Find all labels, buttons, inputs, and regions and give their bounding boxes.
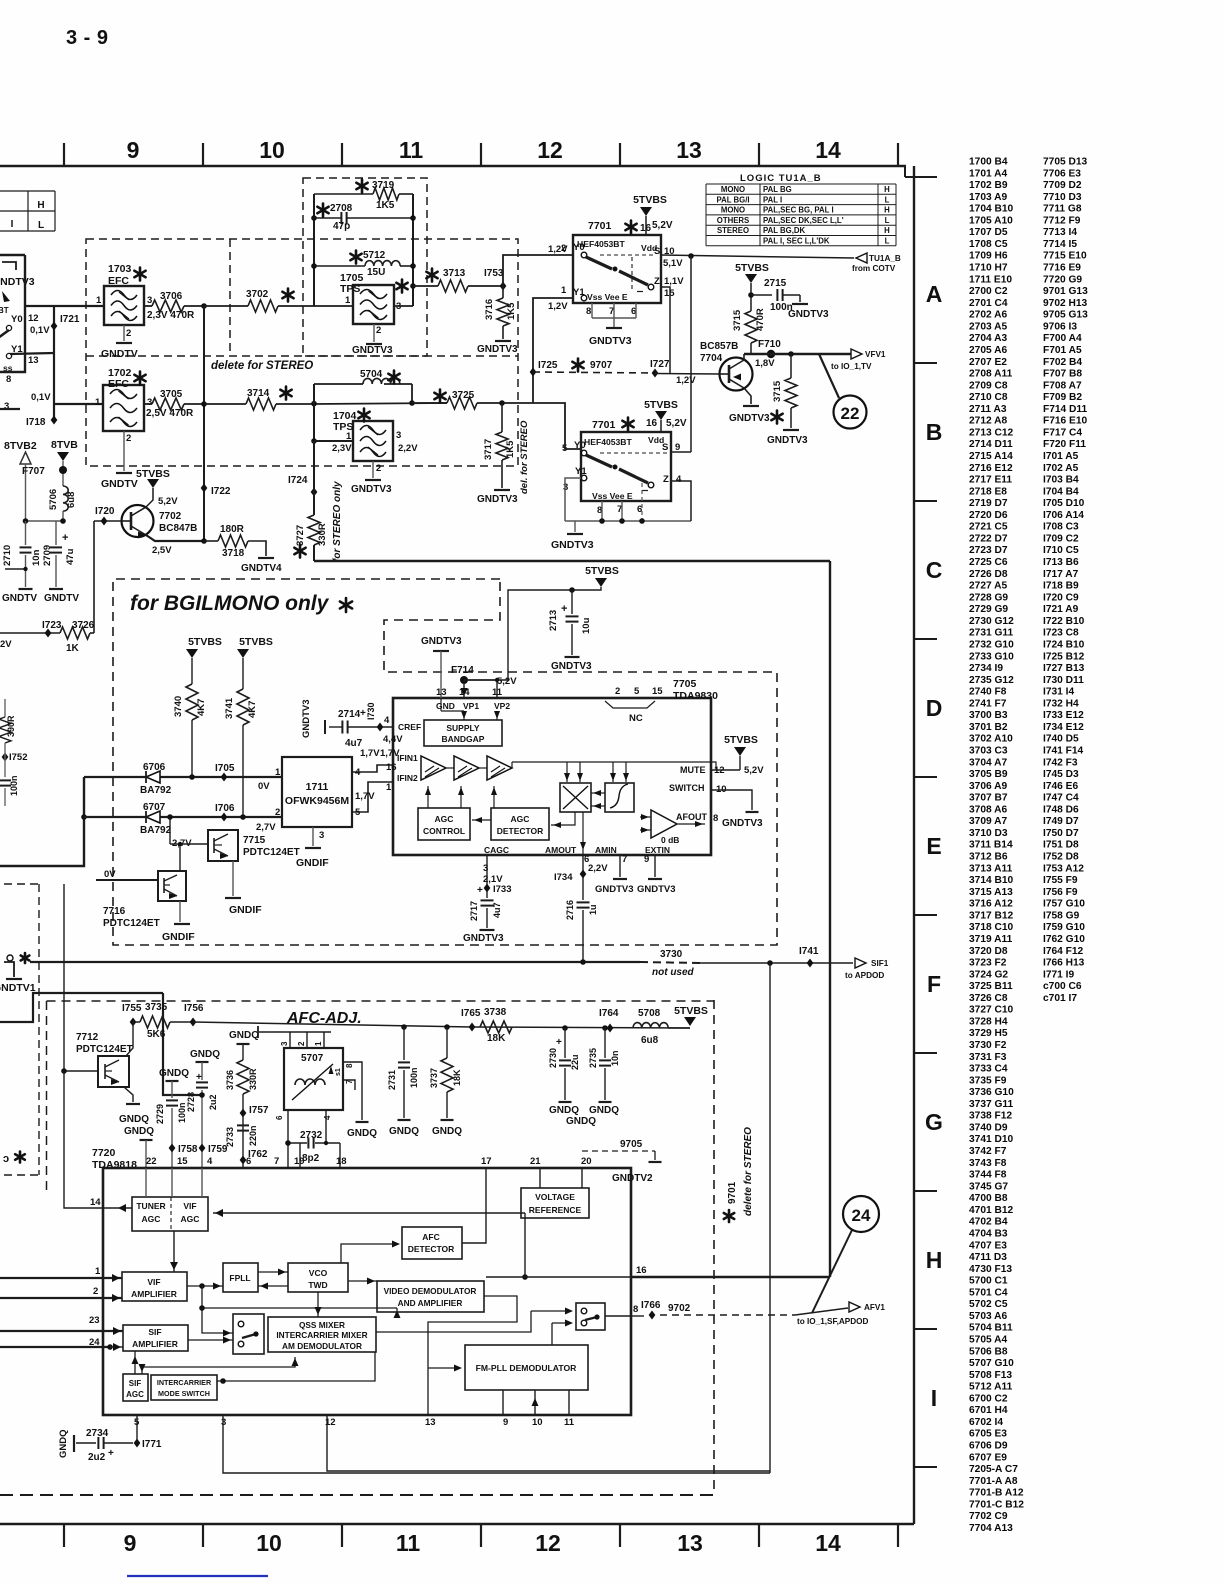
corner mark	[2, 262, 16, 270]
left rail of 1705 network	[313, 194, 315, 306]
svg-text:1K5: 1K5	[506, 302, 517, 320]
svg-text:I752: I752	[9, 752, 28, 763]
svg-text:MONO: MONO	[721, 185, 745, 194]
svg-text:5,2V: 5,2V	[158, 496, 178, 507]
svg-text:7701: 7701	[592, 419, 616, 431]
svg-text:100n: 100n	[9, 775, 19, 796]
svg-text:PAL,SEC DK,SEC L,L': PAL,SEC DK,SEC L,L'	[763, 216, 844, 225]
wire left feed to IFIN lines	[0, 777, 84, 866]
svg-text:3745 G7: 3745 G7	[969, 1181, 1008, 1192]
wire AMOUT	[582, 812, 584, 855]
asterisk for 3719	[356, 180, 367, 193]
wire switch pin to ground	[711, 790, 752, 810]
svg-text:GNDIF: GNDIF	[296, 857, 329, 869]
svg-text:2u2: 2u2	[208, 1094, 218, 1110]
svg-text:5706: 5706	[48, 489, 59, 510]
svg-text:1700 B4: 1700 B4	[969, 157, 1008, 168]
svg-text:I706: I706	[215, 803, 235, 814]
svg-text:470R: 470R	[755, 308, 766, 331]
svg-text:7715 E10: 7715 E10	[1043, 251, 1087, 262]
svg-text:2u2: 2u2	[88, 1452, 106, 1463]
block AGC CONTROL	[418, 808, 470, 840]
svg-text:2731 G11: 2731 G11	[969, 628, 1014, 639]
svg-text:I734: I734	[554, 872, 573, 883]
svg-text:2,2V: 2,2V	[588, 863, 608, 874]
svg-text:12: 12	[537, 137, 563, 163]
wire 7712 base	[64, 1070, 98, 1072]
svg-text:3 - 9: 3 - 9	[66, 27, 109, 49]
svg-text:AMIN: AMIN	[595, 845, 617, 855]
svg-text:11: 11	[399, 137, 424, 163]
wire IFIN1 line	[84, 776, 282, 778]
svg-text:2735: 2735	[588, 1048, 598, 1068]
svg-text:3726 C8: 3726 C8	[969, 993, 1008, 1004]
svg-text:I718 B9: I718 B9	[1043, 581, 1079, 592]
emitter of 7702 to 180R	[146, 535, 204, 541]
svg-text:3735 F9: 3735 F9	[969, 1075, 1007, 1086]
svg-text:6705 E3: 6705 E3	[969, 1429, 1007, 1440]
svg-text:5,2V: 5,2V	[744, 765, 764, 776]
svg-text:3708 A6: 3708 A6	[969, 804, 1007, 815]
ground GNDTV3 of 2717	[480, 929, 495, 931]
capacitor 2716 1u	[577, 901, 590, 903]
svg-text:Z: Z	[654, 276, 660, 287]
svg-text:22u: 22u	[570, 1054, 580, 1070]
svg-text:GNDTV3: GNDTV3	[0, 276, 35, 288]
ground GNDTV4	[258, 557, 274, 559]
svg-text:8: 8	[6, 374, 11, 385]
svg-text:GNDTV: GNDTV	[2, 593, 37, 604]
svg-text:4K7: 4K7	[196, 699, 207, 716]
svg-text:GNDQ: GNDQ	[566, 1116, 596, 1127]
resistor 3706	[144, 305, 152, 307]
asterisk for 3702	[282, 289, 293, 302]
svg-text:3714 B10: 3714 B10	[969, 875, 1014, 886]
svg-text:GNDQ: GNDQ	[389, 1126, 419, 1137]
block VIF AMPLIFIER	[122, 1272, 187, 1301]
coil 5708 6u8	[633, 1023, 668, 1028]
dashed AFC-ADJ box	[47, 1000, 715, 1002]
wire 7712 collector to I755	[126, 1022, 133, 1056]
svg-text:9: 9	[127, 137, 140, 163]
svg-text:10: 10	[259, 137, 285, 163]
svg-text:I766: I766	[641, 1300, 661, 1311]
svg-text:I: I	[11, 219, 14, 230]
svg-text:11: 11	[564, 1417, 575, 1428]
svg-text:7720 G9: 7720 G9	[1043, 274, 1082, 285]
wire Y0 input of 7701-C	[533, 403, 581, 449]
svg-text:I766 H13: I766 H13	[1043, 958, 1085, 969]
svg-text:47p: 47p	[333, 221, 350, 232]
svg-text:15: 15	[652, 686, 663, 697]
svg-text:I730 D11: I730 D11	[1043, 675, 1084, 686]
svg-text:7702: 7702	[159, 511, 182, 522]
svg-text:1: 1	[345, 295, 351, 306]
svg-text:1707 D5: 1707 D5	[969, 227, 1008, 238]
svg-text:FM-PLL DEMODULATOR: FM-PLL DEMODULATOR	[476, 1363, 578, 1373]
svg-text:2700 C2: 2700 C2	[969, 286, 1008, 297]
top ruler ticks	[63, 143, 65, 166]
svg-text:6707: 6707	[143, 802, 166, 813]
svg-text:3737: 3737	[429, 1068, 439, 1088]
wire stub with test point I721	[53, 306, 55, 353]
svg-text:5TVBS: 5TVBS	[735, 262, 769, 274]
svg-text:3717 B12: 3717 B12	[969, 910, 1014, 921]
block VCO TWD	[288, 1263, 348, 1292]
svg-text:2709: 2709	[42, 545, 53, 566]
svg-text:EFC: EFC	[108, 378, 129, 390]
mixer block	[560, 783, 591, 812]
svg-text:2728: 2728	[186, 1092, 196, 1112]
resistor 3735 5K6	[133, 1021, 140, 1023]
svg-text:I709 C2: I709 C2	[1043, 534, 1079, 545]
svg-text:1,2V: 1,2V	[548, 301, 568, 312]
svg-text:D: D	[926, 695, 943, 721]
svg-text:TWD: TWD	[308, 1280, 327, 1290]
svg-text:delete for STEREO: delete for STEREO	[743, 1127, 754, 1216]
svg-text:4707 E3: 4707 E3	[969, 1240, 1007, 1251]
svg-text:STEREO: STEREO	[717, 226, 749, 235]
svg-text:5707: 5707	[301, 1053, 324, 1064]
block FPLL	[223, 1263, 258, 1292]
svg-text:5,1V: 5,1V	[663, 258, 683, 269]
IC 7720 TDA9818 outline	[103, 1168, 631, 1415]
wire base down to 3726 line	[93, 521, 95, 633]
svg-text:2715 A14: 2715 A14	[969, 451, 1013, 462]
svg-text:GNDTV3: GNDTV3	[637, 884, 676, 895]
wire into AFC DETECTOR	[341, 1244, 396, 1263]
svg-text:3735: 3735	[145, 1002, 168, 1013]
svg-text:3706 A9: 3706 A9	[969, 781, 1007, 792]
svg-text:AGC: AGC	[181, 1214, 200, 1224]
wires pins 22 15 4 into AGC block	[145, 1168, 147, 1197]
svg-text:I721 A9: I721 A9	[1043, 604, 1079, 615]
wire 0V input of 7716	[96, 879, 158, 881]
resistor 3713	[413, 285, 438, 287]
wire bottom rail of 7701-C	[565, 520, 691, 522]
svg-text:7: 7	[622, 854, 627, 865]
wire pin 3 long bottom rail	[223, 1415, 770, 1473]
svg-text:IFIN1: IFIN1	[397, 753, 418, 763]
svg-text:F708 A7: F708 A7	[1043, 380, 1082, 391]
svg-text:AMPLIFIER: AMPLIFIER	[132, 1339, 178, 1349]
wire 3714 output to 3725 node	[314, 403, 447, 404]
svg-text:2705 A6: 2705 A6	[969, 345, 1007, 356]
svg-text:H: H	[884, 206, 890, 215]
svg-text:VIF: VIF	[147, 1277, 160, 1287]
wire 1705 pin3 to rail	[394, 305, 413, 307]
capacitor 2708 47p	[314, 217, 341, 219]
svg-text:7713 I4: 7713 I4	[1043, 227, 1077, 238]
svg-text:0,1V: 0,1V	[31, 392, 51, 403]
svg-text:PAL I: PAL I	[763, 195, 782, 204]
wire S pin to TU1A_B arrow	[661, 255, 854, 258]
svg-text:I751 D8: I751 D8	[1043, 840, 1079, 851]
svg-text:2711 A3: 2711 A3	[969, 404, 1007, 415]
svg-text:I717 A7: I717 A7	[1043, 569, 1079, 580]
svg-text:5TVBS: 5TVBS	[674, 1005, 708, 1017]
svg-text:7716 E9: 7716 E9	[1043, 263, 1081, 274]
svg-text:4701 B12: 4701 B12	[969, 1205, 1014, 1216]
filter 1704 TPS	[353, 421, 393, 461]
svg-text:5701 C4: 5701 C4	[969, 1287, 1008, 1298]
dashed divider	[86, 355, 518, 357]
svg-text:22: 22	[146, 1156, 157, 1167]
resistor 3737 18K	[444, 1024, 450, 1030]
svg-text:TUNER: TUNER	[136, 1201, 165, 1211]
svg-text:3711 B14: 3711 B14	[969, 840, 1013, 851]
svg-text:9706 I3: 9706 I3	[1043, 321, 1077, 332]
partial IC 7701-A box at left edge	[0, 255, 25, 372]
svg-text:I730: I730	[366, 702, 376, 720]
svg-text:1K: 1K	[66, 643, 80, 654]
ground GNDTV3 of 2713	[565, 656, 580, 658]
wire to lower rail	[202, 1286, 233, 1333]
svg-text:I759 G10: I759 G10	[1043, 922, 1085, 933]
svg-text:2713 C12: 2713 C12	[969, 427, 1014, 438]
svg-text:2730 G12: 2730 G12	[969, 616, 1014, 627]
svg-text:3: 3	[396, 430, 401, 441]
svg-text:I757: I757	[249, 1105, 269, 1116]
svg-text:22: 22	[841, 404, 860, 423]
wires to pins 19 18	[299, 1143, 301, 1168]
svg-text:I: I	[931, 1385, 937, 1411]
pin 6 AMOUT node I734	[582, 855, 584, 900]
coil 5712 15U	[314, 265, 365, 267]
svg-text:3705: 3705	[160, 389, 183, 400]
svg-text:10u: 10u	[581, 617, 592, 634]
svg-text:2: 2	[275, 807, 280, 818]
wire 1711 pin5 to IFIN2	[352, 782, 393, 812]
svg-text:2712 A8: 2712 A8	[969, 416, 1007, 427]
svg-text:1703 A9: 1703 A9	[969, 192, 1007, 203]
svg-text:330R: 330R	[248, 1068, 258, 1090]
resistor 3716 1K5 to ground	[502, 286, 504, 298]
svg-text:B: B	[926, 419, 943, 445]
svg-text:20: 20	[581, 1156, 592, 1167]
svg-text:PAL I, SEC L,L'DK: PAL I, SEC L,L'DK	[763, 237, 830, 246]
svg-text:7205-A C7: 7205-A C7	[969, 1464, 1018, 1475]
svg-text:18: 18	[336, 1156, 347, 1167]
ground GNDQ of 2730	[559, 1101, 572, 1103]
svg-text:2729: 2729	[155, 1104, 165, 1124]
wire GNDTV1 bus	[0, 993, 163, 1022]
wire 5,2V rail to F714	[464, 587, 601, 680]
svg-text:I756 F9: I756 F9	[1043, 887, 1078, 898]
svg-text:FPLL: FPLL	[229, 1273, 250, 1283]
test point I721	[51, 322, 58, 331]
svg-text:1708 C5: 1708 C5	[969, 239, 1008, 250]
svg-text:I705: I705	[215, 763, 235, 774]
svg-text:ɔ: ɔ	[3, 1153, 9, 1165]
svg-text:HEF4053BT: HEF4053BT	[584, 437, 633, 447]
svg-text:GNDQ: GNDQ	[190, 1049, 220, 1060]
svg-text:Vss Vee E: Vss Vee E	[587, 292, 628, 302]
svg-text:I720 C9: I720 C9	[1043, 592, 1079, 603]
node I741	[807, 959, 814, 968]
svg-text:F707: F707	[22, 466, 45, 477]
wire 7715 base	[170, 843, 208, 845]
svg-text:2: 2	[561, 243, 566, 254]
svg-text:13: 13	[436, 687, 447, 698]
svg-text:1705 A10: 1705 A10	[969, 215, 1013, 226]
svg-text:3701 B2: 3701 B2	[969, 722, 1008, 733]
svg-text:GNDQ: GNDQ	[119, 1114, 149, 1125]
wires into mixer and limiter	[566, 762, 568, 782]
svg-text:1K5: 1K5	[376, 200, 395, 211]
emitter ground of 7704	[744, 388, 751, 404]
capacitor 2731 100n	[401, 1024, 407, 1030]
resistor 3741 4K7	[237, 689, 249, 725]
svg-text:5TVBS: 5TVBS	[644, 399, 678, 411]
capacitor 2710 10n	[25, 521, 27, 545]
block SIF AMPLIFIER	[123, 1325, 188, 1351]
svg-text:16: 16	[646, 418, 658, 429]
wire pin 12 to bottom rail	[327, 1415, 770, 1471]
svg-text:GNDQ: GNDQ	[549, 1105, 579, 1116]
svg-text:I764 F12: I764 F12	[1043, 946, 1084, 957]
ground GNDTV3 under 7701-C	[574, 521, 576, 532]
connector mark	[7, 955, 13, 961]
svg-text:21: 21	[530, 1156, 541, 1167]
capacitor 2709 47u	[55, 521, 57, 545]
svg-text:3724 G2: 3724 G2	[969, 969, 1008, 980]
ground GNDQ of 2731	[398, 1119, 411, 1121]
svg-text:I710 C5: I710 C5	[1043, 545, 1079, 556]
pin 11 wire	[496, 680, 498, 698]
ground GNDQ of 2735	[599, 1101, 612, 1103]
svg-text:I702 A5: I702 A5	[1043, 463, 1079, 474]
svg-text:BC857B: BC857B	[700, 341, 738, 352]
svg-text:14: 14	[815, 137, 841, 163]
wire 3706 output to 3702	[204, 305, 248, 307]
svg-text:14: 14	[90, 1197, 101, 1208]
svg-text:I732 H4: I732 H4	[1043, 698, 1079, 709]
svg-text:7701-A A8: 7701-A A8	[969, 1476, 1018, 1487]
node I766	[649, 1311, 656, 1320]
node F714	[460, 676, 468, 684]
svg-text:I725 B12: I725 B12	[1043, 651, 1085, 662]
base line I720	[94, 520, 121, 522]
svg-text:E: E	[926, 833, 941, 859]
svg-text:c701 I7: c701 I7	[1043, 993, 1077, 1004]
svg-text:2: 2	[615, 686, 620, 697]
svg-text:8: 8	[633, 1304, 638, 1315]
ground GNDIF of 7716	[179, 901, 181, 922]
svg-text:2733: 2733	[225, 1127, 235, 1147]
svg-text:3730 F2: 3730 F2	[969, 1040, 1007, 1051]
svg-text:18K: 18K	[452, 1069, 462, 1086]
svg-text:I757 G10: I757 G10	[1043, 899, 1085, 910]
svg-text:AFC: AFC	[422, 1232, 439, 1242]
ground GNDTV of 1703	[123, 325, 125, 341]
svg-text:2726 D8: 2726 D8	[969, 569, 1008, 580]
svg-text:5705 A4: 5705 A4	[969, 1335, 1007, 1346]
wire video demod to fm-pll and pin 13	[428, 1296, 517, 1415]
svg-text:5703 A6: 5703 A6	[969, 1311, 1007, 1322]
bottom ruler ticks	[63, 1524, 65, 1547]
capacitor 100n (cut off)	[0, 779, 11, 781]
left rail row B	[313, 384, 315, 441]
svg-text:2730: 2730	[548, 1048, 558, 1068]
svg-text:2723 D7: 2723 D7	[969, 545, 1008, 556]
asterisk for 5704	[388, 371, 399, 384]
svg-text:3743 F8: 3743 F8	[969, 1158, 1007, 1169]
svg-text:S: S	[662, 442, 668, 453]
svg-text:5TVBS: 5TVBS	[633, 194, 667, 206]
svg-text:3742 F7: 3742 F7	[969, 1146, 1007, 1157]
svg-text:5TVBS: 5TVBS	[724, 734, 758, 746]
svg-text:3741 D10: 3741 D10	[969, 1134, 1014, 1145]
asterisk 16 5,2V labels	[625, 221, 636, 234]
svg-text:3741: 3741	[224, 697, 235, 719]
ground GNDTV1 at left edge	[4, 962, 14, 977]
svg-text:13: 13	[676, 137, 702, 163]
svg-text:100n: 100n	[409, 1067, 419, 1088]
svg-text:3715: 3715	[732, 309, 743, 331]
asterisk for 5712	[350, 251, 361, 264]
svg-text:I727 B13: I727 B13	[1043, 663, 1085, 674]
svg-text:1: 1	[96, 295, 102, 306]
svg-text:C: C	[926, 557, 943, 583]
svg-text:AFOUT: AFOUT	[676, 812, 707, 822]
ground GNDTV3 of 3717	[494, 489, 510, 491]
svg-text:BA792: BA792	[140, 785, 172, 796]
agc feedback arrows	[427, 786, 429, 808]
wire pin16 external	[631, 1276, 830, 1278]
svg-text:1: 1	[386, 782, 392, 793]
svg-text:2,5V 470R: 2,5V 470R	[146, 408, 194, 419]
svg-text:3729 H5: 3729 H5	[969, 1028, 1008, 1039]
svg-text:3738: 3738	[484, 1007, 507, 1018]
input wires pins 1 2	[0, 1277, 122, 1279]
svg-text:I722: I722	[211, 486, 231, 497]
svg-text:5TVBS: 5TVBS	[239, 636, 273, 648]
node I725	[530, 368, 537, 377]
svg-text:5712: 5712	[363, 250, 386, 261]
svg-text:3703 C3: 3703 C3	[969, 746, 1008, 757]
svg-text:PAL BG,DK: PAL BG,DK	[763, 226, 806, 235]
right rail of 1705 network	[412, 194, 414, 306]
capacitor 2715 100n	[751, 294, 772, 296]
svg-text:I718: I718	[26, 417, 46, 428]
svg-text:5707 G10: 5707 G10	[969, 1358, 1014, 1369]
node I762	[240, 1156, 247, 1165]
svg-text:2703 A5: 2703 A5	[969, 321, 1007, 332]
svg-text:2,2V: 2,2V	[398, 443, 418, 454]
wire rail to 1705 pin1	[314, 305, 353, 307]
svg-text:3718 C10: 3718 C10	[969, 922, 1014, 933]
svg-text:s1: s1	[335, 1068, 342, 1076]
svg-text:3: 3	[147, 295, 152, 306]
node I727	[652, 369, 659, 378]
asterisk for 9707	[572, 359, 583, 372]
svg-text:3715: 3715	[772, 380, 783, 402]
svg-text:GNDQ: GNDQ	[229, 1030, 259, 1041]
asterisk for 3715	[771, 411, 782, 424]
transistor 7702 BC847B	[122, 505, 154, 537]
asterisk for 1703	[134, 268, 145, 281]
resistor 3714	[246, 398, 276, 410]
svg-text:47u: 47u	[65, 548, 76, 565]
svg-text:6u8: 6u8	[641, 1035, 659, 1046]
svg-text:F: F	[927, 971, 941, 997]
svg-text:9701: 9701	[727, 1181, 738, 1204]
ground GNDQ of 5707 right pins	[356, 1121, 369, 1123]
svg-text:F700 A4: F700 A4	[1043, 333, 1082, 344]
svg-text:I740 D5: I740 D5	[1043, 734, 1079, 745]
svg-text:5K6: 5K6	[147, 1029, 166, 1040]
